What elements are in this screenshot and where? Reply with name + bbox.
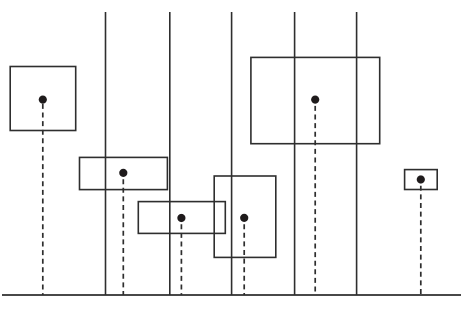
vertical line L1 bbox=[105, 12, 107, 295]
point P5 (dot in R5) bbox=[311, 96, 319, 104]
rectangle R5 (large top-right) bbox=[251, 57, 380, 143]
dashed drop line from P5 bbox=[314, 100, 316, 295]
point P4 (dot in R4) bbox=[240, 214, 248, 222]
vertical line L5 bbox=[356, 12, 358, 295]
dashed drop line from P2 bbox=[122, 173, 124, 295]
point P3 (dot in R3) bbox=[177, 214, 185, 222]
point P6 (dot in R6) bbox=[417, 175, 425, 183]
vertical line L3 bbox=[231, 12, 233, 295]
rectangle R2 bbox=[80, 157, 168, 189]
point P2 (dot in R2) bbox=[119, 169, 127, 177]
dashed drop line from P6 bbox=[420, 180, 422, 296]
point P1 (dot in R1) bbox=[39, 96, 47, 104]
dashed drop line from P4 bbox=[243, 218, 245, 295]
vertical line L2 bbox=[169, 12, 171, 295]
baseline (bottom horizontal axis) bbox=[2, 294, 461, 296]
rectangle R4 (tall middle) bbox=[214, 176, 276, 257]
rectangle R6 (small right) bbox=[405, 170, 438, 190]
vertical line L4 bbox=[294, 12, 296, 295]
dashed drop line from P1 bbox=[42, 100, 44, 295]
rectangle R3 bbox=[138, 202, 225, 234]
rectangle R1 (top-left square) bbox=[10, 67, 76, 131]
dashed drop line from P3 bbox=[180, 218, 182, 295]
